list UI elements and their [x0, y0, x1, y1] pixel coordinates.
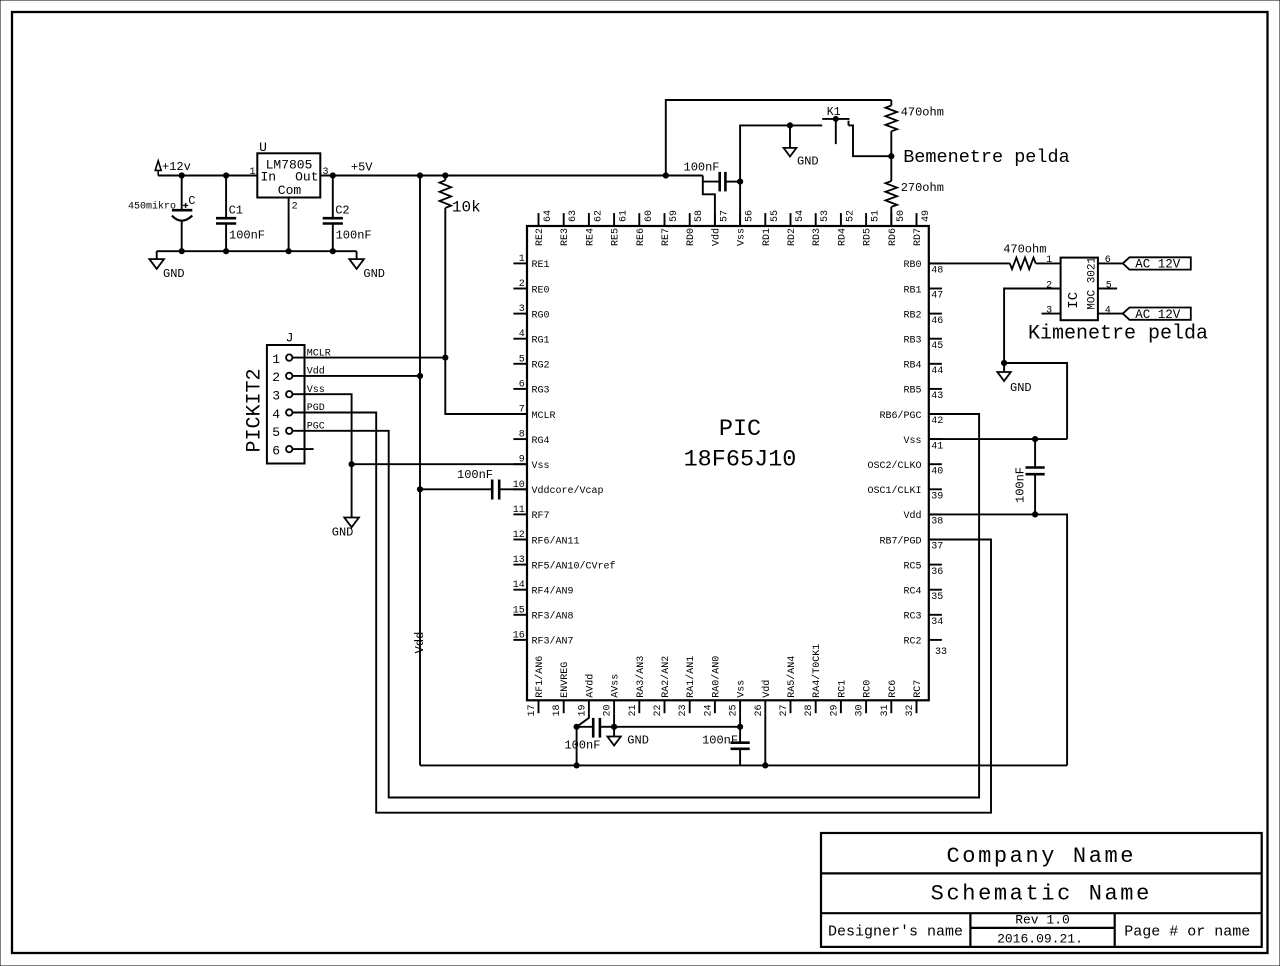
- svg-text:C1: C1: [229, 203, 243, 217]
- junction 100nF at Vss pin56 column: [737, 179, 743, 185]
- svg-text:AC 12V: AC 12V: [1135, 308, 1181, 322]
- svg-text:6: 6: [519, 379, 525, 390]
- svg-text:61: 61: [619, 210, 630, 222]
- ground at AVss: [613, 727, 615, 737]
- wire Vss pin 41: [929, 438, 1067, 440]
- svg-text:GND: GND: [1010, 381, 1032, 395]
- svg-text:+12v: +12v: [162, 160, 191, 174]
- svg-text:Company Name: Company Name: [946, 844, 1136, 869]
- resistor 470ohm at RB0: [929, 262, 1010, 264]
- svg-text:GND: GND: [363, 267, 385, 281]
- svg-text:40: 40: [931, 466, 943, 477]
- svg-text:RE0: RE0: [532, 285, 550, 296]
- capacitor C1 100nF: [225, 176, 227, 219]
- svg-text:55: 55: [770, 210, 781, 222]
- svg-text:RA1/AN1: RA1/AN1: [685, 656, 697, 698]
- svg-text:43: 43: [931, 391, 943, 402]
- junction +5V at Vdd column: [417, 172, 423, 178]
- pin 55 RD1: [764, 213, 766, 226]
- svg-text:RC7: RC7: [913, 680, 924, 698]
- wire J pin1 MCLR: [292, 357, 445, 359]
- pin 49 RD7: [916, 213, 918, 226]
- svg-text:Page # or name: Page # or name: [1124, 923, 1250, 940]
- svg-text:RE4: RE4: [585, 228, 596, 246]
- svg-text:41: 41: [931, 441, 943, 452]
- svg-text:MCLR: MCLR: [532, 411, 556, 422]
- svg-text:38: 38: [931, 517, 943, 528]
- svg-text:48: 48: [931, 266, 943, 277]
- svg-text:33: 33: [935, 647, 947, 658]
- resistor 270ohm: [890, 156, 892, 181]
- svg-text:24: 24: [703, 704, 714, 716]
- svg-text:OSC2/CLKO: OSC2/CLKO: [867, 460, 921, 472]
- capacitor 100nF right: [1034, 439, 1036, 467]
- svg-text:Vss: Vss: [532, 461, 550, 472]
- svg-text:1: 1: [1046, 255, 1052, 266]
- svg-text:RD7: RD7: [913, 228, 924, 246]
- pin 24 RA0/AN0: [714, 700, 716, 713]
- pin 63 RE3: [563, 213, 565, 226]
- pin 7 MCLR: [513, 413, 527, 415]
- svg-text:RB6/PGC: RB6/PGC: [879, 410, 921, 422]
- svg-text:45: 45: [931, 341, 943, 352]
- junction gnd rail cap C: [179, 248, 185, 254]
- svg-text:J: J: [286, 331, 294, 346]
- wire gnd loop to Vss pin 41: [1004, 363, 1067, 439]
- wire pin 19 AVdd jog down: [577, 713, 589, 727]
- pin 31 RC6: [890, 700, 892, 713]
- capacitor 100nF at AVdd/AVss: [577, 726, 594, 728]
- pin 54 RD2: [790, 213, 792, 226]
- svg-text:RE2: RE2: [535, 228, 546, 246]
- svg-text:270ohm: 270ohm: [901, 181, 944, 195]
- junction Bemenetre node: [888, 153, 894, 159]
- pin 15 RF3/AN8: [513, 614, 527, 616]
- pin 25 Vss: [739, 700, 741, 713]
- svg-text:11: 11: [513, 505, 525, 516]
- svg-text:RB7/PGD: RB7/PGD: [879, 535, 921, 547]
- svg-text:Vdd: Vdd: [761, 680, 773, 698]
- junction Vdd rail at AVdd: [574, 762, 580, 768]
- pin 19 AVdd: [588, 700, 590, 713]
- capacitor 100nF at pin 10: [499, 488, 527, 490]
- pin 52 RD4: [840, 213, 842, 226]
- svg-text:52: 52: [845, 210, 856, 222]
- wire J pin2 Vdd: [292, 375, 420, 377]
- svg-text:6: 6: [272, 443, 280, 458]
- svg-text:1: 1: [249, 167, 255, 178]
- wire J pin4 PGD loop to pin 37: [292, 413, 991, 813]
- junction pin41 wire at 100nF: [1032, 436, 1038, 442]
- svg-text:100nF: 100nF: [564, 739, 600, 753]
- svg-text:5: 5: [1106, 280, 1112, 291]
- junction on +12v rail at C1: [223, 172, 229, 178]
- svg-text:64: 64: [543, 210, 554, 222]
- wire top loop to K1/resistors: [666, 100, 892, 176]
- junction +5V at 10k: [442, 172, 448, 178]
- pin 47 RB1: [929, 288, 942, 290]
- svg-text:6: 6: [1105, 255, 1111, 266]
- svg-text:RD4: RD4: [837, 228, 848, 246]
- svg-text:MOC 3021: MOC 3021: [1086, 256, 1098, 309]
- svg-text:15: 15: [513, 605, 525, 616]
- svg-text:RC2: RC2: [903, 637, 921, 648]
- op IC PIC 18F65J10 body: [527, 226, 929, 700]
- svg-text:ENVREG: ENVREG: [560, 662, 571, 698]
- svg-text:RE6: RE6: [636, 228, 647, 246]
- pin 17 RF1/AN6: [538, 700, 540, 713]
- svg-text:RA0/AN0: RA0/AN0: [710, 656, 722, 698]
- svg-text:RE3: RE3: [560, 228, 571, 246]
- svg-text:C2: C2: [335, 203, 349, 217]
- svg-text:AVss: AVss: [611, 674, 622, 698]
- svg-text:4: 4: [272, 407, 280, 422]
- svg-text:20: 20: [603, 704, 614, 716]
- svg-text:2: 2: [519, 279, 525, 290]
- svg-text:53: 53: [820, 210, 831, 222]
- svg-text:RF3/AN8: RF3/AN8: [532, 611, 574, 623]
- svg-text:PICKIT2: PICKIT2: [244, 368, 267, 452]
- pin 45 RB3: [929, 338, 942, 340]
- svg-text:RA4/T0CK1: RA4/T0CK1: [811, 644, 823, 698]
- wire U pin2 to ground rail: [288, 198, 290, 252]
- svg-text:34: 34: [931, 617, 943, 628]
- svg-text:+5V: +5V: [351, 161, 373, 175]
- wire J pin6 stub: [292, 448, 313, 450]
- svg-text:100nF: 100nF: [457, 468, 493, 482]
- svg-text:100nF: 100nF: [336, 228, 372, 242]
- wire AVdd down to Vdd rail: [576, 727, 578, 766]
- svg-text:OSC1/CLKI: OSC1/CLKI: [867, 485, 921, 497]
- svg-text:RF4/AN9: RF4/AN9: [532, 586, 574, 598]
- svg-text:RD3: RD3: [812, 228, 823, 246]
- pin 22 RA2/AN2: [664, 700, 666, 713]
- svg-text:54: 54: [795, 210, 806, 222]
- connector J PICKIT2: [267, 345, 305, 464]
- wire Vdd bottom rail: [420, 764, 1067, 766]
- wire 10k to MCLR pin 7: [445, 208, 527, 414]
- svg-text:2016.09.21.: 2016.09.21.: [997, 931, 1083, 946]
- svg-text:44: 44: [931, 366, 943, 377]
- svg-text:51: 51: [871, 210, 882, 222]
- pin 35 RC4: [929, 589, 942, 591]
- pin 10 Vddcore/Vcap: [513, 488, 527, 490]
- svg-text:RC5: RC5: [903, 561, 921, 572]
- capacitor C2 100nF: [332, 176, 334, 219]
- pin 1 RE1: [513, 262, 527, 264]
- pin 26 Vdd: [764, 700, 766, 713]
- pin 3 stub of IC: [1042, 313, 1061, 315]
- svg-text:RD0: RD0: [686, 228, 697, 246]
- opto IC MOC 3021: [1061, 258, 1098, 321]
- svg-text:RE1: RE1: [532, 260, 550, 271]
- pin 30 RC0: [865, 700, 867, 713]
- pin 29 RC1: [840, 700, 842, 713]
- svg-text:RG4: RG4: [532, 436, 550, 447]
- svg-text:57: 57: [719, 210, 730, 222]
- svg-text:RC6: RC6: [888, 680, 899, 698]
- svg-text:RD5: RD5: [863, 228, 874, 246]
- svg-text:5: 5: [519, 354, 525, 365]
- wire IC pin2 to ground loop: [1004, 289, 1061, 364]
- junction K1 wire at GND tap: [787, 122, 793, 128]
- junction gnd rail U pin2: [286, 248, 292, 254]
- ground rail wire: [157, 250, 357, 252]
- junction IC pin2 gnd node: [1001, 360, 1007, 366]
- svg-text:37: 37: [931, 542, 943, 553]
- pin 62 RE4: [588, 213, 590, 226]
- svg-text:42: 42: [931, 416, 943, 427]
- pin 37 RB7/PGD: [929, 539, 942, 541]
- svg-text:31: 31: [880, 704, 891, 716]
- pin 61 RE5: [613, 213, 615, 226]
- svg-text:5: 5: [272, 425, 280, 440]
- svg-text:23: 23: [678, 704, 689, 716]
- svg-text:U: U: [259, 140, 267, 155]
- svg-text:1: 1: [519, 254, 525, 265]
- pin 16 RF3/AN7: [513, 639, 527, 641]
- svg-text:GND: GND: [797, 155, 819, 169]
- svg-text:35: 35: [931, 592, 943, 603]
- pin 6 RG3: [513, 388, 527, 390]
- junction +5V rail at C2: [330, 172, 336, 178]
- pin 40 OSC2/CLKO: [929, 463, 942, 465]
- svg-text:13: 13: [513, 555, 525, 566]
- svg-text:In: In: [261, 170, 277, 185]
- svg-text:RD6: RD6: [888, 228, 899, 246]
- junction Vdd at 100nF pin10: [417, 486, 423, 492]
- svg-text:Vdd: Vdd: [710, 228, 722, 246]
- pin 64 RE2: [538, 213, 540, 226]
- svg-text:14: 14: [513, 580, 525, 591]
- svg-text:39: 39: [931, 492, 943, 503]
- svg-text:RG0: RG0: [532, 310, 550, 321]
- svg-text:8: 8: [519, 430, 525, 441]
- svg-text:2: 2: [1046, 280, 1052, 291]
- svg-text:RD2: RD2: [787, 228, 798, 246]
- pin 14 RF4/AN9: [513, 589, 527, 591]
- pin 3 RG0: [513, 313, 527, 315]
- pin 39 OSC1/CLKI: [929, 488, 942, 490]
- pin 2 RE0: [513, 288, 527, 290]
- wire Vss pin 56 up and to K1: [740, 125, 822, 226]
- svg-text:RG1: RG1: [532, 336, 550, 347]
- pin 13 RF5/AN10/CVref: [513, 564, 527, 566]
- svg-text:32: 32: [905, 704, 916, 716]
- svg-text:28: 28: [804, 704, 815, 716]
- svg-text:4: 4: [1105, 305, 1111, 316]
- pin 12 RF6/AN11: [513, 539, 527, 541]
- svg-text:1: 1: [272, 352, 280, 367]
- pin 46 RB2: [929, 313, 942, 315]
- svg-text:C: C: [188, 194, 195, 208]
- svg-text:2: 2: [292, 201, 298, 212]
- svg-text:470ohm: 470ohm: [1003, 242, 1046, 256]
- pin 32 RC7: [916, 700, 918, 713]
- junction pin38 wire at 100nF: [1032, 511, 1038, 517]
- junction AVdd node: [574, 724, 580, 730]
- regulator U LM7805: [257, 153, 320, 197]
- svg-text:25: 25: [729, 704, 740, 716]
- wire pin 20 AVss down: [613, 713, 615, 727]
- pin 18 ENVREG: [563, 700, 565, 713]
- pin 11 RF7: [513, 513, 527, 515]
- ground at J pin3: [344, 518, 359, 528]
- svg-text:Schematic Name: Schematic Name: [931, 882, 1152, 907]
- svg-text:46: 46: [931, 316, 943, 327]
- pin 27 RA5/AN4: [790, 700, 792, 713]
- svg-text:470ohm: 470ohm: [901, 105, 944, 119]
- svg-text:Vss: Vss: [903, 436, 921, 447]
- power flag +12v: [155, 161, 161, 171]
- pin 5 RG2: [513, 363, 527, 365]
- svg-text:AC 12V: AC 12V: [1135, 258, 1181, 272]
- capacitor 100nF at pin56/57: [703, 181, 720, 183]
- svg-text:RC3: RC3: [903, 612, 921, 623]
- svg-text:18F65J10: 18F65J10: [684, 446, 797, 473]
- wire J pin5 PGC loop to pin 42: [292, 414, 979, 798]
- wire J pin3 Vss to ground: [292, 394, 351, 517]
- pin 20 AVss: [613, 700, 615, 713]
- junction Vdd rail at pin 26: [762, 762, 768, 768]
- junction +5V at top loop: [663, 172, 669, 178]
- pin 9 Vss: [513, 463, 527, 465]
- junction Vss wire: [349, 461, 355, 467]
- svg-text:PIC: PIC: [719, 416, 761, 443]
- svg-text:62: 62: [593, 210, 604, 222]
- svg-text:Bemenetre pelda: Bemenetre pelda: [903, 147, 1070, 168]
- svg-text:10k: 10k: [452, 198, 481, 216]
- svg-text:100nF: 100nF: [684, 160, 720, 174]
- pin 42 RB6/PGC: [929, 413, 942, 415]
- svg-text:RG3: RG3: [532, 386, 550, 397]
- svg-text:3: 3: [1046, 305, 1052, 316]
- power flag AC 12V upper: [1123, 257, 1191, 269]
- svg-text:Com: Com: [278, 183, 302, 198]
- title block frame: [821, 833, 1262, 947]
- svg-text:RB2: RB2: [903, 310, 921, 321]
- svg-text:RB4: RB4: [903, 361, 921, 372]
- svg-text:RF6/AN11: RF6/AN11: [532, 535, 580, 547]
- pin 5 stub of IC: [1098, 288, 1117, 290]
- svg-text:60: 60: [644, 210, 655, 222]
- junction Vdd at PICKIT2 pin2: [417, 373, 423, 379]
- wire IC pin6 to AC flag: [1098, 262, 1123, 264]
- svg-text:RA3/AN3: RA3/AN3: [635, 656, 647, 698]
- wire +12v rail: [158, 175, 257, 177]
- svg-text:RF3/AN7: RF3/AN7: [532, 636, 574, 648]
- svg-text:12: 12: [513, 530, 525, 541]
- pin 56 Vss: [739, 213, 741, 226]
- svg-text:3: 3: [519, 304, 525, 315]
- wire +5V rail: [320, 175, 703, 177]
- pin 43 RB5: [929, 388, 942, 390]
- svg-text:450mikro: 450mikro: [128, 201, 176, 213]
- svg-text:AVdd: AVdd: [584, 674, 596, 698]
- resistor 10k: [444, 176, 446, 181]
- svg-text:Vss: Vss: [737, 228, 748, 246]
- pin 28 RA4/T0CK1: [815, 700, 817, 713]
- pin 4 RG1: [513, 338, 527, 340]
- pin 34 RC3: [929, 614, 942, 616]
- svg-text:17: 17: [527, 704, 538, 716]
- pin 59 RE7: [664, 213, 666, 226]
- junction gnd rail C2: [330, 248, 336, 254]
- svg-text:22: 22: [653, 704, 664, 716]
- svg-text:56: 56: [745, 210, 756, 222]
- pin 48 RB0: [929, 262, 942, 264]
- wire pin 26 Vdd down to rail: [764, 713, 766, 765]
- svg-text:16: 16: [513, 630, 525, 641]
- svg-text:2: 2: [272, 370, 280, 385]
- ground right: [356, 251, 358, 259]
- capacitor 100nF at Vss/Vdd bottom: [739, 727, 741, 743]
- svg-text:27: 27: [779, 704, 790, 716]
- svg-text:GND: GND: [163, 267, 185, 281]
- svg-text:100nF: 100nF: [1013, 467, 1027, 503]
- pin 50 RD6: [890, 213, 892, 226]
- svg-text:RB5: RB5: [903, 386, 921, 397]
- svg-text:RC0: RC0: [863, 680, 874, 698]
- pin 60 RE6: [638, 213, 640, 226]
- svg-text:RE7: RE7: [661, 228, 672, 246]
- svg-text:3: 3: [323, 167, 329, 178]
- power flag AC 12V lower: [1123, 308, 1191, 320]
- svg-text:RF7: RF7: [532, 511, 550, 522]
- pin 23 RA1/AN1: [689, 700, 691, 713]
- svg-text:18: 18: [552, 704, 563, 716]
- svg-text:59: 59: [669, 210, 680, 222]
- svg-text:RB0: RB0: [903, 260, 921, 271]
- pin 41 Vss: [929, 438, 942, 440]
- junction AVss node: [611, 724, 617, 730]
- wire Vss pin 9: [352, 463, 527, 465]
- svg-text:29: 29: [829, 704, 840, 716]
- resistor 470ohm top: [890, 100, 892, 106]
- svg-text:4: 4: [519, 329, 525, 340]
- svg-text:RE5: RE5: [611, 228, 622, 246]
- svg-text:19: 19: [577, 704, 588, 716]
- svg-text:3: 3: [272, 389, 280, 404]
- svg-text:RF5/AN10/CVref: RF5/AN10/CVref: [532, 560, 616, 572]
- svg-text:RC1: RC1: [837, 680, 848, 698]
- svg-text:26: 26: [754, 704, 765, 716]
- ground left: [156, 251, 158, 259]
- svg-text:30: 30: [855, 704, 866, 716]
- pin 38 Vdd: [929, 513, 942, 515]
- junction 10k column at PICKIT2 pin1: [442, 355, 448, 361]
- svg-text:RG2: RG2: [532, 361, 550, 372]
- svg-text:100nF: 100nF: [229, 228, 265, 242]
- svg-text:Designer's name: Designer's name: [828, 923, 963, 940]
- wire Vdd column: [419, 176, 421, 766]
- pin 33 RC2: [929, 639, 942, 641]
- wire Vdd rail up to pin 38: [929, 514, 1067, 765]
- svg-text:Vdd: Vdd: [903, 510, 921, 522]
- wire pin 25 down: [739, 713, 741, 727]
- svg-text:RA5/AN4: RA5/AN4: [786, 656, 798, 698]
- svg-text:IC: IC: [1066, 292, 1082, 309]
- ground at IC pin2: [1003, 363, 1005, 372]
- svg-text:GND: GND: [332, 526, 354, 540]
- pin 53 RD3: [815, 213, 817, 226]
- ground at K1: [789, 125, 791, 147]
- pin 21 RA3/AN3: [638, 700, 640, 713]
- junction gnd rail C1: [223, 248, 229, 254]
- junction on +12v rail at cap C: [179, 172, 185, 178]
- svg-text:Vdd: Vdd: [413, 632, 427, 654]
- pin 44 RB4: [929, 363, 942, 365]
